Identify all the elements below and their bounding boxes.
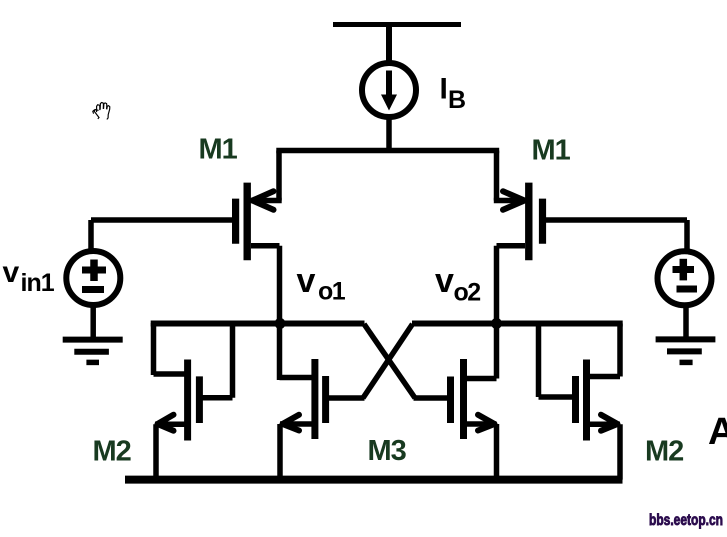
M3 right drain lead <box>464 376 497 382</box>
wire mid rail down to left M1 source <box>276 151 282 201</box>
vin1 plus sign <box>82 260 106 282</box>
node vo2 junction dot <box>491 318 502 329</box>
ground left <box>63 340 123 363</box>
ground right <box>656 339 716 362</box>
M2 right gate lead <box>539 394 575 400</box>
wire M2 right source down <box>617 424 623 479</box>
svg-text:M2: M2 <box>645 436 683 468</box>
M2 right source lead <box>587 422 621 428</box>
right M1 source arrow <box>503 191 525 210</box>
wire right source bottom to ground <box>683 303 689 339</box>
wire M3 left source down <box>277 424 283 480</box>
M3 left source arrow <box>283 415 300 431</box>
right cross rail (vo2 node rail) <box>412 321 623 327</box>
transistor M1 right gate bar <box>539 199 546 244</box>
cross-couple diagonal A (left rail to right M3 gate) <box>364 324 415 398</box>
wire M2 left gate up to rail <box>230 323 236 398</box>
label IB <box>440 73 467 115</box>
voltage source vin1 circle <box>66 251 120 305</box>
current source IB circle <box>362 63 416 117</box>
label vo1 <box>297 262 346 306</box>
M2 right gate bar <box>572 376 579 423</box>
svg-text:M3: M3 <box>368 435 407 467</box>
wire M2 right drain up to rail <box>617 324 623 377</box>
hand cursor icon <box>93 103 110 120</box>
wire vin1 bottom to ground <box>90 303 96 340</box>
right M1 drain lead <box>497 243 526 249</box>
wire node vo1 vertical <box>277 246 283 380</box>
transistor M3 left: drain lead <box>280 375 317 381</box>
wire top rail to IB <box>386 25 392 67</box>
mid rail (M1 common source node) <box>276 148 499 154</box>
M2 right drain lead <box>587 374 621 380</box>
M2 left channel bar <box>184 360 191 441</box>
transistor M2 left: drain wire down <box>151 323 157 375</box>
svg-text:M2: M2 <box>93 436 131 468</box>
node vo1 junction dot <box>275 318 286 329</box>
M3 right channel bar <box>460 359 467 439</box>
M2 left source lead <box>155 422 188 428</box>
bottom ground rail <box>125 476 623 484</box>
transistor M1 right channel bar <box>525 183 532 261</box>
M3 right gate bar <box>447 377 454 424</box>
M3 left channel bar <box>311 359 318 439</box>
M2 right channel bar <box>583 360 590 441</box>
left M1 source arrow <box>253 191 274 210</box>
wire IB to mid rail <box>386 114 392 151</box>
right source minus sign <box>677 286 698 293</box>
svg-text:bbs.eetop.cn: bbs.eetop.cn <box>649 512 723 529</box>
wire M3 right source down <box>494 424 500 480</box>
M3 right source arrow <box>478 415 495 431</box>
M2 left source arrow <box>158 415 174 431</box>
M2 left gate lead <box>201 395 233 401</box>
left cross rail (vo1 node rail) <box>151 321 365 327</box>
top supply rail <box>333 22 461 27</box>
transistor M3 right: gate lead <box>414 395 452 401</box>
M3 left gate bar <box>322 376 329 423</box>
svg-text:v: v <box>3 256 20 289</box>
svg-text:o2: o2 <box>454 279 481 307</box>
M3 right source lead <box>464 421 497 427</box>
right source plus sign <box>673 259 695 281</box>
svg-text:B: B <box>448 86 466 114</box>
left M1 source lead <box>251 198 282 204</box>
M2 left drain lead <box>154 371 189 377</box>
transistor M1 left channel bar <box>243 183 250 261</box>
M2 left gate bar <box>196 376 203 423</box>
svg-text:M1: M1 <box>532 135 571 167</box>
M2 right source arrow <box>601 415 618 431</box>
left M1 drain lead <box>251 243 280 249</box>
voltage source right circle <box>658 251 712 305</box>
svg-text:A: A <box>708 411 727 453</box>
svg-text:M1: M1 <box>199 134 238 166</box>
wire left M1 gate lead <box>91 217 232 223</box>
svg-text:v: v <box>435 262 454 300</box>
wire node vo2 vertical <box>494 246 500 379</box>
right M1 source lead <box>494 198 525 204</box>
wire mid rail down to right M1 source <box>494 151 500 201</box>
M3 left source lead <box>280 421 315 427</box>
label vin1 <box>3 256 55 297</box>
transistor M1 left gate bar <box>232 199 239 244</box>
svg-text:v: v <box>297 262 316 300</box>
wire M2 left source down <box>153 424 159 479</box>
M3 left gate lead <box>327 395 365 401</box>
svg-text:o1: o1 <box>318 278 346 306</box>
svg-text:I: I <box>440 73 448 106</box>
wire right source top to gate <box>684 220 690 252</box>
vin1 minus sign <box>82 286 104 293</box>
label vo2 <box>435 262 480 307</box>
transistor M2 right: gate wire down from rail <box>536 324 542 398</box>
cross-couple diagonal B (left M3 gate to right rail) <box>363 324 413 398</box>
current source IB arrow <box>381 71 397 111</box>
wire vin1 top to gate <box>88 220 94 252</box>
wire right M1 gate lead <box>546 217 687 223</box>
svg-text:in1: in1 <box>21 269 55 297</box>
